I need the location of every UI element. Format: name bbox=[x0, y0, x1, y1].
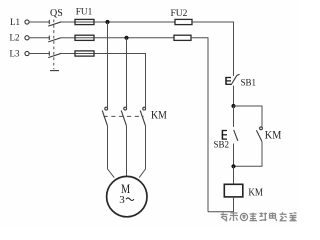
svg-text:FU1: FU1 bbox=[76, 7, 93, 17]
contactor KM main contact 3 bbox=[140, 107, 145, 125]
svg-text:SB1: SB1 bbox=[241, 77, 257, 87]
switch QS label bbox=[50, 8, 63, 19]
fuse FU2 b bbox=[174, 35, 191, 40]
junction control bottom bbox=[231, 164, 235, 168]
wire L1 bus bbox=[94, 21, 175, 23]
wire drop phase3 bbox=[145, 54, 147, 108]
wire coil to return bbox=[208, 197, 234, 212]
svg-text:3: 3 bbox=[119, 194, 125, 206]
wire SB1 to junction bbox=[233, 86, 235, 107]
wire QS to FU1 row1 bbox=[61, 21, 75, 23]
fuse FU2 a bbox=[175, 19, 192, 24]
pushbutton SB2 actuator bbox=[222, 130, 227, 139]
pushbutton SB1 blade bbox=[231, 74, 240, 85]
pushbutton SB1 label bbox=[241, 77, 257, 87]
wire L1 to control column bbox=[192, 22, 234, 76]
svg-text:L1: L1 bbox=[10, 17, 20, 27]
svg-text:KM: KM bbox=[151, 109, 167, 122]
svg-text:SB2: SB2 bbox=[214, 139, 230, 149]
junction control top bbox=[231, 104, 235, 108]
wire SB2 to junction bottom bbox=[233, 144, 235, 167]
coil KM bbox=[224, 184, 243, 197]
wire motor lead 1 bbox=[108, 126, 115, 178]
terminal L2 bbox=[25, 36, 29, 40]
wire drop phase1 bbox=[107, 22, 109, 107]
svg-text:KM: KM bbox=[265, 128, 282, 141]
contactor KM main contact 1 bbox=[102, 107, 107, 125]
node L1 label bbox=[10, 17, 20, 27]
wire L2 bus bbox=[94, 37, 174, 39]
fuse FU1 c bbox=[75, 51, 94, 56]
motor M circle bbox=[107, 176, 147, 216]
contactor KM main contact 2 bbox=[121, 107, 126, 125]
switch QS pole 2 bbox=[48, 36, 61, 42]
switch QS pole 1 bbox=[48, 20, 61, 26]
junction L1 bbox=[105, 20, 109, 24]
wire drop phase2 bbox=[126, 38, 128, 107]
wire L1 to QS bbox=[29, 21, 49, 23]
wire junction to SB2 bbox=[233, 106, 235, 127]
watermark toutiao logo and text bbox=[221, 212, 297, 221]
node L3 label bbox=[10, 48, 20, 58]
node L2 label bbox=[10, 33, 20, 43]
wire L2 to return column bbox=[191, 38, 208, 212]
fuse FU2 label bbox=[171, 9, 188, 19]
pushbutton SB1 actuator bbox=[225, 77, 231, 84]
fuse FU1 b bbox=[75, 35, 94, 40]
wire L2 to QS bbox=[29, 37, 49, 39]
switch QS linkage dashed bbox=[53, 20, 55, 70]
contactor KM main label bbox=[151, 109, 167, 122]
contactor KM aux contact bbox=[256, 127, 262, 141]
wire L3 bus bbox=[94, 53, 146, 55]
contactor KM aux label bbox=[265, 128, 282, 141]
wire QS to FU1 row3 bbox=[61, 53, 75, 55]
switch QS pole 3 bbox=[48, 51, 61, 57]
switch QS handle bar bbox=[50, 70, 59, 72]
svg-text:L2: L2 bbox=[10, 33, 20, 43]
svg-text:FU2: FU2 bbox=[171, 9, 188, 19]
pushbutton SB2 blade bbox=[234, 130, 238, 141]
motor 3-phase label bbox=[119, 194, 134, 206]
wire branch to aux bbox=[234, 106, 263, 127]
contactor KM main linkage dashed bbox=[104, 115, 144, 117]
terminal L3 bbox=[25, 51, 29, 55]
wire motor lead 3 bbox=[139, 126, 145, 178]
junction L2 bbox=[124, 36, 128, 40]
svg-text:KM: KM bbox=[248, 187, 263, 199]
wire L3 to QS bbox=[29, 53, 49, 55]
wire QS to FU1 row2 bbox=[61, 37, 75, 39]
wire aux to junction bottom bbox=[234, 141, 263, 166]
coil KM label bbox=[248, 187, 263, 199]
svg-text:QS: QS bbox=[50, 8, 63, 19]
wire motor lead 2 bbox=[126, 126, 128, 177]
svg-text:L3: L3 bbox=[10, 48, 20, 58]
motor M label bbox=[121, 182, 130, 196]
fuse FU1 label bbox=[76, 7, 93, 17]
terminal L1 bbox=[25, 20, 29, 24]
pushbutton SB2 label bbox=[214, 139, 230, 149]
wire junction to coil bbox=[233, 166, 235, 184]
fuse FU1 a bbox=[75, 19, 94, 24]
